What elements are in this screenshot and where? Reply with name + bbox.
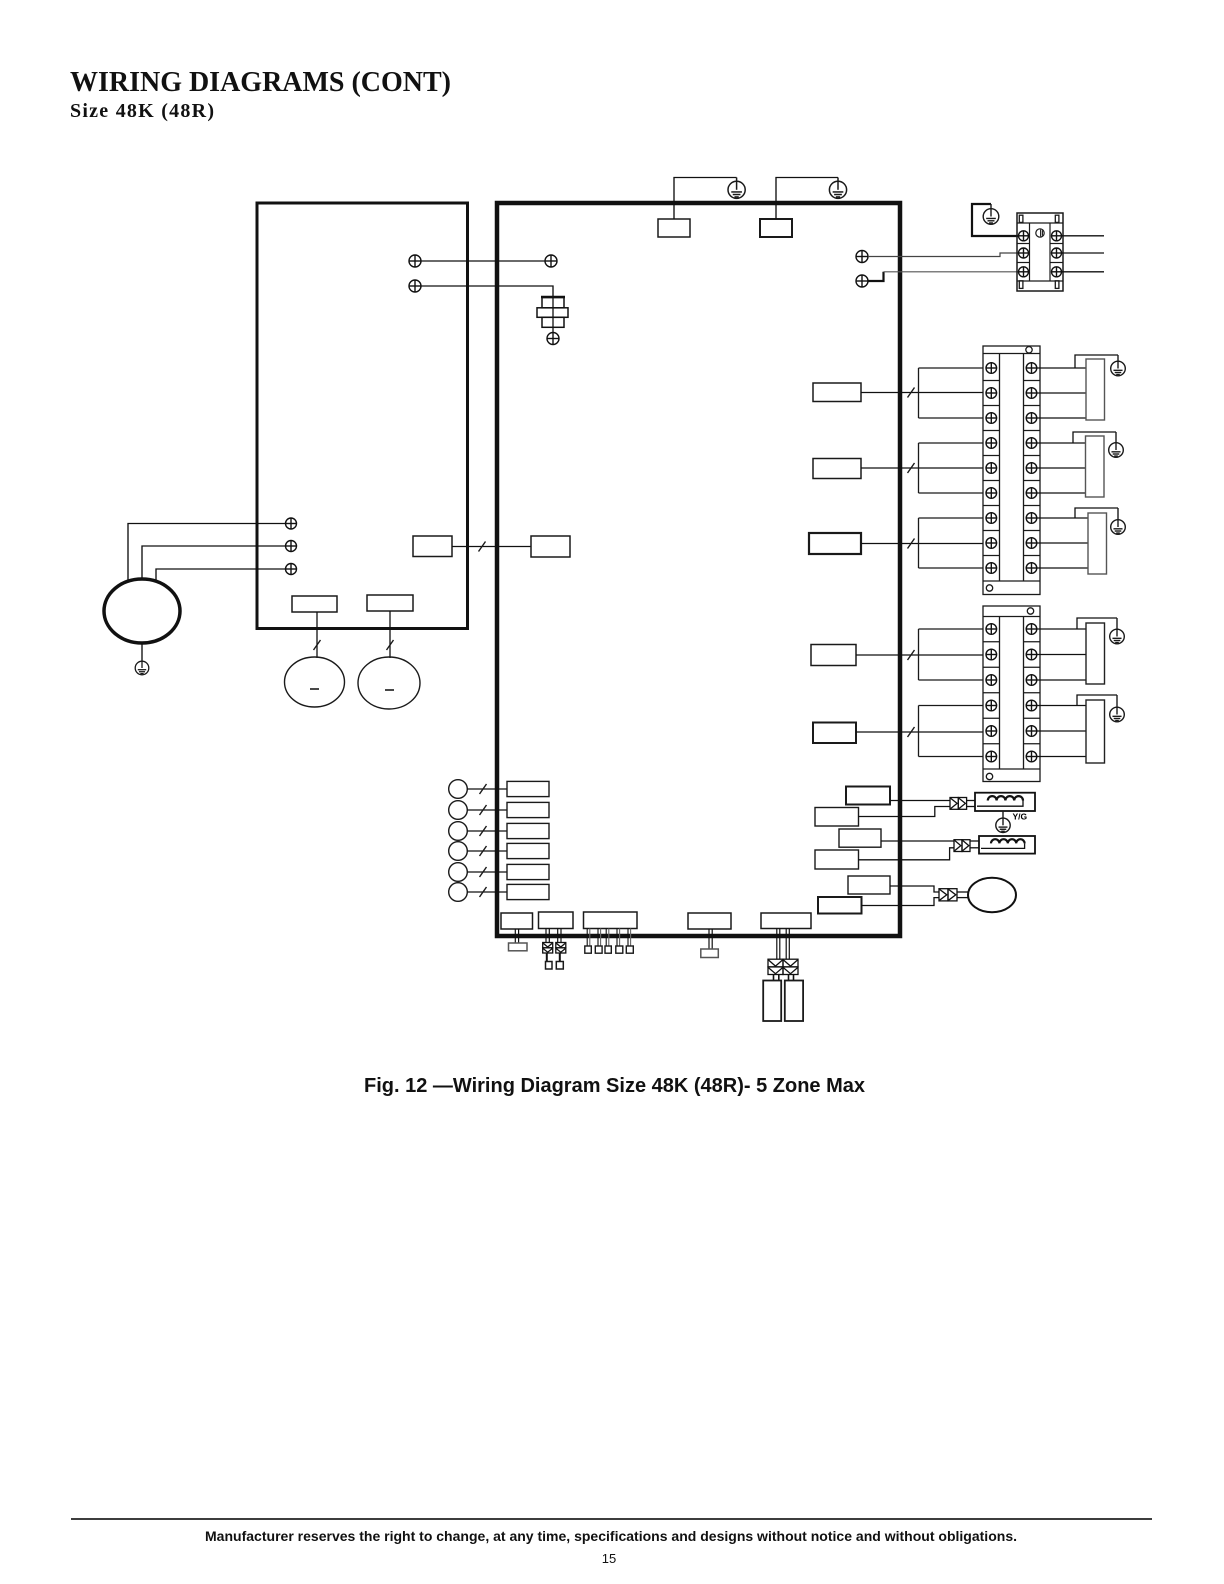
terminal [545, 255, 557, 267]
wire [778, 975, 780, 981]
wire [881, 840, 954, 842]
connector shell [701, 949, 719, 958]
wire junction bracket [919, 706, 984, 757]
wire break slash [480, 887, 487, 897]
contactor coil [367, 595, 413, 611]
wire [142, 546, 286, 579]
plug connector [556, 943, 566, 954]
ground [983, 204, 999, 224]
wire [467, 809, 507, 811]
input relay block [507, 843, 549, 858]
wire [779, 929, 781, 960]
sensor [449, 842, 468, 861]
fuse F1 [537, 297, 568, 333]
ground [829, 178, 846, 199]
wire [884, 271, 1019, 273]
terminal lug [595, 946, 602, 953]
connector plug CN1 [1017, 213, 1063, 291]
wire break slash [387, 640, 394, 650]
compressor COMP2 [358, 657, 420, 709]
relay coil [813, 383, 861, 402]
wire [545, 929, 547, 943]
wire break slash [480, 846, 487, 856]
wire [514, 929, 516, 943]
terminal lug [605, 946, 611, 953]
svg-text:WIRING DIAGRAMS (CONT): WIRING DIAGRAMS (CONT) [70, 67, 451, 98]
terminal lug [626, 946, 633, 953]
wire [1073, 432, 1116, 443]
wire [861, 392, 983, 394]
terminal [286, 564, 297, 575]
quick-connect plug [950, 798, 967, 810]
input relay block [507, 781, 549, 796]
svg-text:Manufacturer reserves the righ: Manufacturer reserves the right to chang… [205, 1528, 1017, 1544]
wire [467, 830, 507, 832]
relay coil [813, 723, 856, 744]
wire [1062, 271, 1105, 273]
plug connector block [768, 959, 798, 974]
wire [858, 848, 954, 860]
input relay block [507, 802, 549, 817]
wire [793, 975, 795, 981]
wire [856, 731, 983, 733]
wire break slash [314, 640, 321, 650]
wire [156, 569, 286, 581]
relay R5 [848, 876, 890, 894]
svg-text:15: 15 [602, 1551, 616, 1566]
wire [467, 891, 507, 893]
svg-text:Fig. 12 —Wiring Diagram Size 4: Fig. 12 —Wiring Diagram Size 48K (48R)- … [364, 1075, 865, 1097]
wire [785, 929, 787, 960]
wire [467, 788, 507, 790]
bottom module 4 [688, 913, 731, 929]
sensor [449, 822, 468, 841]
wire [856, 654, 983, 656]
wire [773, 975, 775, 981]
wire [627, 929, 629, 947]
wire [141, 643, 143, 662]
wire [970, 847, 979, 849]
sensor [449, 883, 468, 902]
quick-connect plug [954, 840, 970, 852]
wire [868, 253, 1018, 257]
wire [467, 850, 507, 852]
relay R6 [818, 897, 862, 914]
terminal [409, 280, 421, 292]
terminal [409, 255, 421, 267]
transformer primary block [658, 219, 690, 237]
relay block [531, 536, 570, 557]
wire [861, 467, 983, 469]
wire [858, 807, 950, 817]
wire [546, 953, 548, 962]
heater coil HTR1 [975, 793, 1035, 811]
footer rule [71, 1518, 1152, 1520]
wire [776, 929, 778, 960]
wire break slash [480, 826, 487, 836]
terminal lug [546, 962, 553, 970]
wire break slash [908, 539, 915, 549]
wire [674, 178, 737, 220]
wire [1037, 628, 1086, 630]
wire [1077, 695, 1117, 706]
fan motor M2 [968, 878, 1016, 912]
svg-text:Y/G: Y/G [1013, 812, 1028, 822]
wire junction bracket [919, 443, 984, 493]
terminal [856, 275, 868, 287]
wire [467, 871, 507, 873]
wire [957, 891, 968, 893]
connector shell [509, 943, 528, 951]
ground [1110, 695, 1125, 722]
ground [1111, 508, 1126, 534]
wire [557, 929, 559, 943]
wire break slash [908, 650, 915, 660]
heater element bar [1086, 436, 1105, 497]
terminal [547, 333, 559, 345]
ground [728, 178, 745, 199]
wire [389, 611, 391, 658]
relay coil [813, 459, 861, 479]
ground [1109, 432, 1124, 457]
heater element bar [1086, 623, 1105, 684]
relay R1 [846, 787, 890, 805]
capacitor block [785, 981, 803, 1022]
wire [518, 929, 520, 943]
wire break slash [479, 542, 486, 552]
wire [967, 800, 975, 802]
ground [135, 661, 149, 675]
ground [1111, 355, 1126, 376]
wire [1037, 517, 1088, 519]
wire [708, 929, 710, 949]
wire [1037, 442, 1086, 444]
capacitor block [763, 981, 781, 1022]
input relay block [507, 884, 549, 899]
wire [586, 929, 588, 947]
ground [996, 811, 1010, 833]
wire [1077, 618, 1117, 629]
quick-connect plug [939, 889, 957, 901]
motor M1 [104, 579, 180, 643]
terminal lug [616, 946, 623, 953]
terminal strip TB1 [983, 346, 1040, 595]
wire break slash [480, 805, 487, 815]
sensor [449, 863, 468, 882]
bottom module 3 [584, 912, 638, 929]
plug connector [543, 943, 553, 954]
transformer secondary block [760, 219, 792, 237]
contactor coil [292, 596, 337, 612]
svg-text:Size 48K (48R): Size 48K (48R) [70, 100, 214, 122]
wire [868, 272, 884, 281]
wire [788, 975, 790, 981]
relay R2 [815, 808, 859, 827]
heater element bar [1086, 359, 1105, 420]
compressor COMP1 [285, 657, 345, 707]
wire [861, 543, 983, 545]
relay coil [811, 645, 856, 666]
wire [970, 840, 979, 842]
wire [605, 929, 607, 947]
wire [861, 898, 939, 906]
relay R3 [839, 829, 881, 847]
wire [559, 953, 561, 962]
wire [1037, 705, 1086, 707]
wire [711, 929, 713, 949]
wire [890, 800, 950, 802]
wire [548, 929, 550, 943]
wire [452, 546, 531, 548]
relay R4 [815, 850, 859, 869]
wire break slash [908, 388, 915, 398]
wire [597, 929, 599, 947]
sensor [449, 780, 468, 799]
bottom module 1 [501, 913, 533, 929]
wire [128, 524, 286, 582]
wire junction bracket [919, 368, 984, 418]
wire junction bracket [919, 518, 984, 568]
ground [1110, 618, 1125, 644]
terminal lug [556, 962, 563, 970]
wire [776, 178, 838, 220]
terminal [856, 251, 868, 263]
heater coil HTR2 [979, 836, 1035, 854]
wire [788, 929, 790, 960]
left control box [257, 203, 468, 629]
input relay block [507, 823, 549, 838]
wire break slash [480, 784, 487, 794]
wire [1037, 367, 1086, 369]
wire [1062, 252, 1105, 254]
wire [1075, 355, 1118, 368]
heater element bar [1086, 700, 1105, 763]
terminal [286, 541, 297, 552]
terminal [286, 518, 297, 529]
wire [421, 260, 545, 262]
terminal lug [585, 946, 592, 953]
wire [316, 612, 318, 658]
wire [1062, 235, 1105, 237]
wire [957, 897, 968, 899]
wire [967, 806, 975, 808]
wire [616, 929, 618, 947]
bottom module 5 [761, 913, 811, 929]
wire [421, 286, 553, 297]
main control box [497, 203, 900, 936]
wire [1075, 508, 1118, 518]
relay coil [809, 533, 861, 554]
relay block [413, 536, 452, 557]
wire break slash [480, 867, 487, 877]
wire junction bracket [919, 629, 984, 680]
wire [560, 929, 562, 943]
bottom module 2 [539, 912, 574, 929]
input relay block [507, 864, 549, 879]
wire break slash [908, 727, 915, 737]
terminal strip TB2 [983, 606, 1040, 782]
wire [890, 886, 939, 892]
heater element bar [1088, 513, 1107, 574]
sensor [449, 801, 468, 820]
wire break slash [908, 463, 915, 473]
wire [972, 204, 1018, 236]
